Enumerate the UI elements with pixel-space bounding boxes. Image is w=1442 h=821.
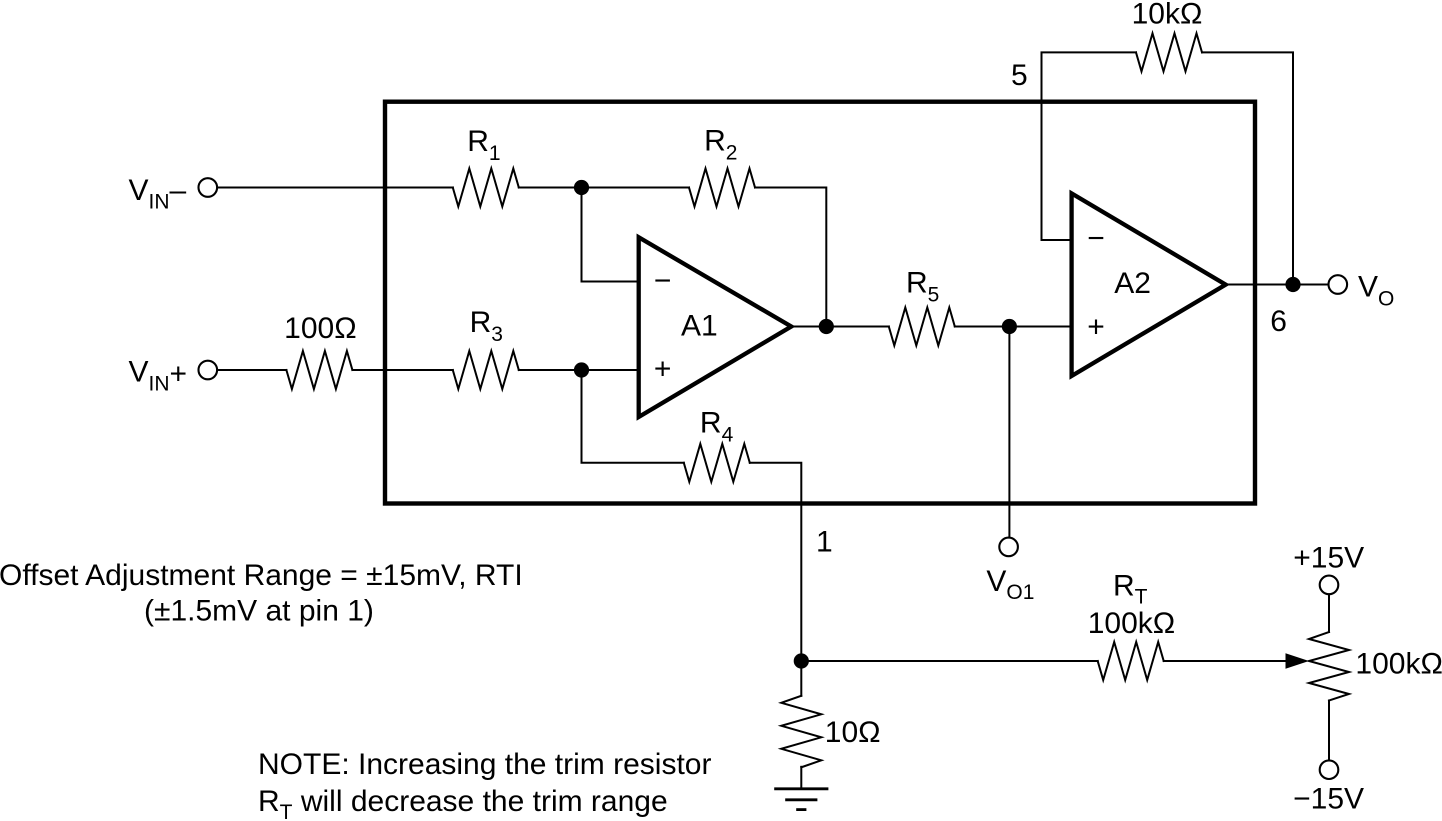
terminal VO1 — [999, 538, 1018, 557]
svg-text:100kΩ: 100kΩ — [1088, 607, 1175, 640]
wire RT to wiper arrow — [1164, 660, 1288, 662]
wire node to A1 inverting input — [582, 188, 640, 282]
svg-text:−15V: −15V — [1293, 783, 1364, 816]
terminal +15V — [1320, 576, 1339, 595]
wire A1 output to R5 — [791, 326, 889, 328]
wire node to R4 — [582, 370, 684, 463]
terminal VIN+ — [199, 361, 218, 380]
wire R5 to A2 non-inverting input — [955, 326, 1072, 328]
svg-text:−: − — [1087, 222, 1105, 255]
svg-text:NOTE: Increasing the trim resi: NOTE: Increasing the trim resistor — [258, 748, 711, 781]
svg-text:(±1.5mV at pin 1): (±1.5mV at pin 1) — [144, 595, 374, 628]
resistor R1 — [453, 169, 519, 207]
wire R1 to R2 through node — [519, 187, 689, 189]
terminal VO — [1329, 275, 1348, 294]
resistor R2 — [689, 169, 755, 207]
svg-text:−: − — [654, 264, 672, 297]
wire +15V terminal to potentiometer — [1328, 595, 1330, 632]
svg-text:A1: A1 — [681, 309, 718, 342]
resistor 10ohm — [781, 696, 821, 768]
svg-text:100kΩ: 100kΩ — [1355, 648, 1442, 681]
svg-text:Offset Adjustment Range = ±15m: Offset Adjustment Range = ±15mV, RTI — [0, 559, 523, 592]
resistor 10k feedback — [1136, 33, 1202, 71]
svg-text:RT will decrease the trim rang: RT will decrease the trim range — [258, 785, 668, 821]
wire VIN+ terminal to 100ohm resistor — [218, 369, 287, 371]
junction node VO — [1285, 277, 1300, 292]
wire pin1 node to RT — [801, 660, 1097, 662]
wiper arrow of potentiometer — [1286, 653, 1310, 668]
svg-text:10kΩ: 10kΩ — [1132, 0, 1203, 31]
junction node A1 output — [819, 319, 834, 334]
potentiometer 100k — [1309, 632, 1349, 701]
resistor RT — [1098, 642, 1164, 680]
resistor R4 — [684, 444, 750, 482]
wire pin1 node to 10ohm resistor — [800, 661, 802, 696]
svg-text:6: 6 — [1270, 305, 1287, 338]
wire R3 to A1 non-inverting input — [519, 369, 639, 371]
junction node R3 input — [574, 362, 589, 377]
resistor 100ohm — [286, 351, 352, 389]
terminal VIN- — [199, 178, 218, 197]
svg-text:100Ω: 100Ω — [284, 312, 356, 345]
junction node R1-R2 — [574, 180, 589, 195]
IC package box — [385, 102, 1255, 504]
wire A2 inverting input to node 5 and 10k resistor — [1042, 52, 1137, 240]
svg-text:1: 1 — [816, 526, 833, 559]
wire 10k to output node — [1202, 52, 1293, 284]
wire R4 to pin 1 node — [750, 463, 802, 661]
resistor R3 — [453, 351, 519, 389]
terminal -15V — [1320, 760, 1339, 779]
op-amp A1 — [639, 237, 792, 417]
wire VIN- terminal to R1 — [218, 187, 453, 189]
junction node R5-A2 — [1002, 319, 1017, 334]
wire 10ohm to ground — [800, 767, 802, 789]
svg-text:+: + — [1087, 311, 1105, 344]
wire potentiometer to -15V terminal — [1328, 701, 1330, 761]
junction node pin 1 — [794, 653, 809, 668]
resistor R5 — [889, 308, 955, 346]
svg-text:5: 5 — [1011, 59, 1028, 92]
op-amp A2 — [1072, 193, 1226, 376]
svg-text:+15V: +15V — [1293, 542, 1364, 575]
wire A2 output to VO terminal — [1225, 284, 1328, 286]
svg-text:+: + — [654, 353, 672, 386]
wire R2 to A1 output node — [755, 188, 826, 327]
wire 100ohm to R3 — [352, 369, 452, 371]
svg-text:10Ω: 10Ω — [825, 716, 881, 749]
wire node to VO1 terminal — [1008, 327, 1010, 538]
svg-text:A2: A2 — [1114, 267, 1151, 300]
ground — [774, 789, 828, 810]
